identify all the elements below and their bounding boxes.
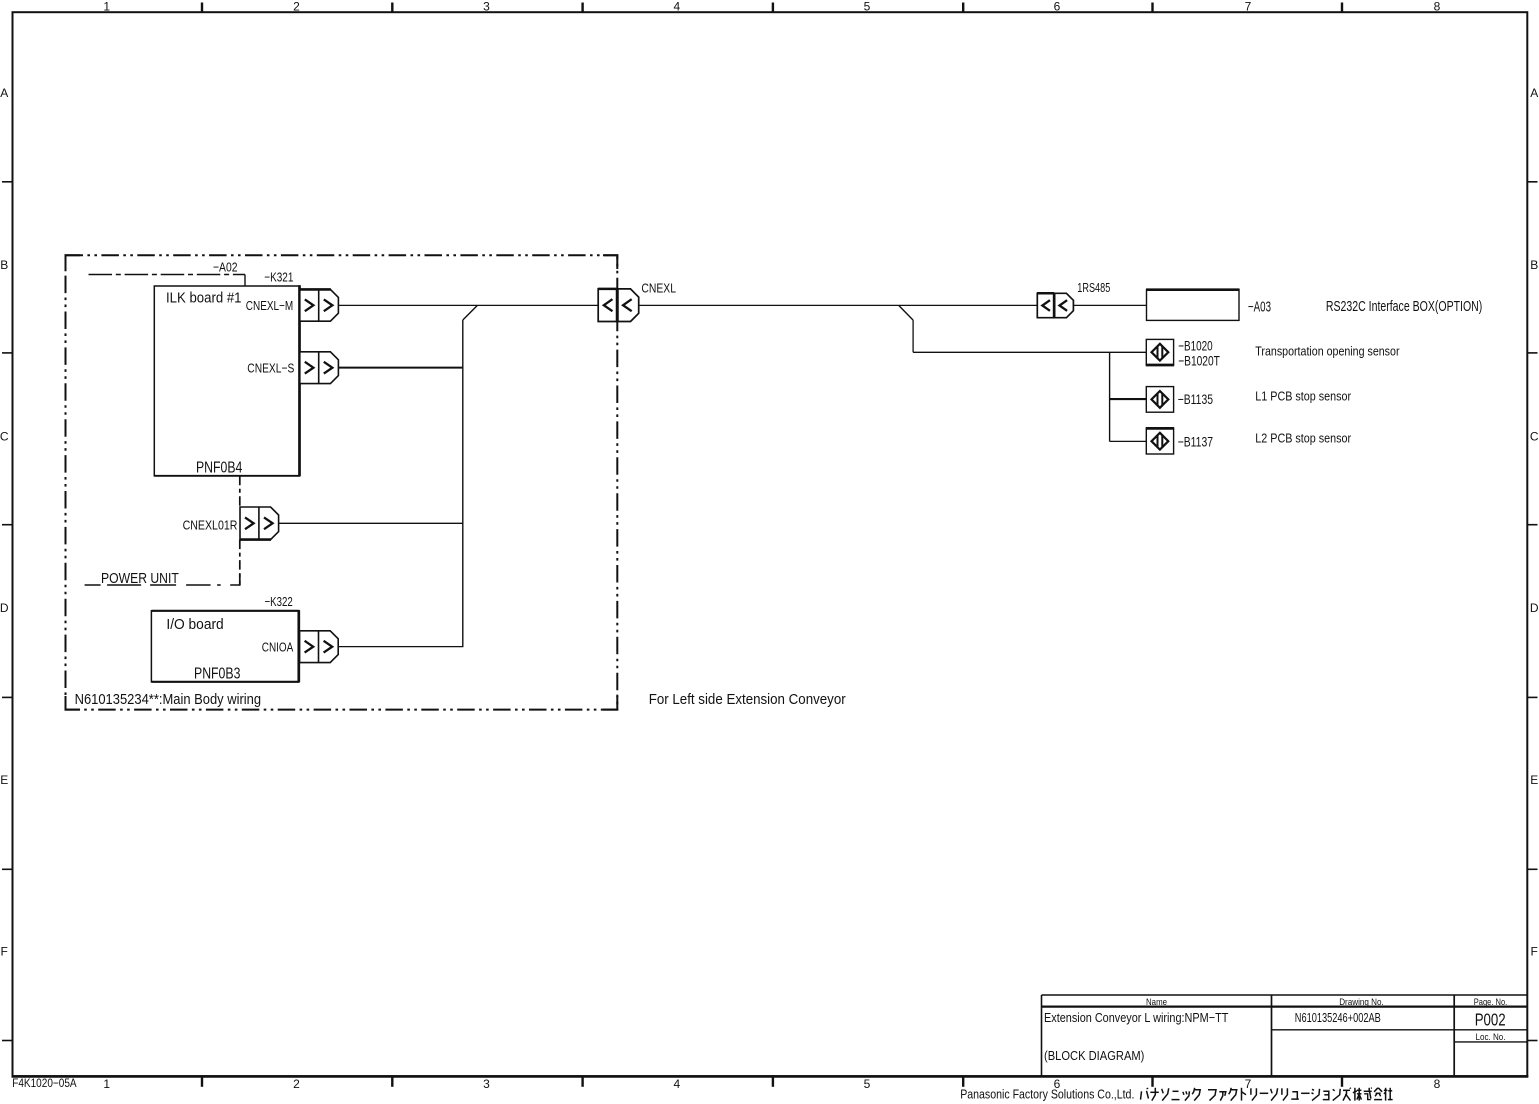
svg-text:Transportation opening sensor: Transportation opening sensor: [1255, 343, 1400, 358]
svg-text:N610135246+002AB: N610135246+002AB: [1295, 1010, 1381, 1025]
board ILK board #1 (PNF0B4): [154, 286, 299, 476]
wire 1RS485 to -A03: [1073, 304, 1146, 306]
svg-text:Panasonic Factory Solutions Co: Panasonic Factory Solutions Co.,Ltd.: [960, 1088, 1134, 1102]
svg-text:P002: P002: [1475, 1009, 1506, 1029]
svg-text:F: F: [1531, 945, 1538, 959]
svg-text:E: E: [0, 773, 8, 787]
wire CNEXL-M to CNEXL: [338, 304, 598, 306]
main body wiring dash-dot boundary box: [66, 255, 618, 709]
svg-text:2: 2: [293, 1077, 300, 1091]
connector 1RS485: [1037, 293, 1073, 317]
svg-text:D: D: [0, 601, 9, 615]
wire -A02 drop to ILK board: [244, 275, 246, 287]
svg-text:8: 8: [1434, 0, 1441, 13]
svg-text:CNEXL−M: CNEXL−M: [246, 298, 293, 313]
svg-text:A: A: [0, 86, 8, 100]
svg-text:5: 5: [864, 0, 871, 13]
wire PNF0B4 to CNEXL01R dashed: [239, 476, 241, 507]
frame column ticks top: [201, 3, 203, 13]
svg-text:F4K1020−05A: F4K1020−05A: [12, 1076, 76, 1090]
frame row ticks left: [2, 181, 13, 183]
svg-text:(BLOCK DIAGRAM): (BLOCK DIAGRAM): [1044, 1048, 1144, 1063]
svg-text:F: F: [1, 945, 8, 959]
wire to L1 PCB stop sensor: [1110, 398, 1147, 400]
svg-text:1: 1: [103, 1077, 110, 1091]
connector CNEXL (boundary): [598, 289, 639, 322]
svg-text:5: 5: [864, 1077, 871, 1091]
svg-text:Name: Name: [1146, 997, 1167, 1008]
wire branch diagonal to sensors: [899, 305, 913, 320]
svg-text:D: D: [1530, 601, 1539, 615]
svg-text:Extension Conveyor L wiring:NP: Extension Conveyor L wiring:NPM−TT: [1044, 1010, 1228, 1025]
svg-text:7: 7: [1245, 0, 1252, 13]
svg-text:CNIOA: CNIOA: [262, 640, 294, 655]
svg-text:Page. No.: Page. No.: [1474, 997, 1508, 1008]
svg-text:−K322: −K322: [265, 594, 293, 609]
svg-text:−K321: −K321: [264, 269, 293, 284]
wire CNEXL to 1RS485: [639, 304, 1038, 306]
svg-text:1RS485: 1RS485: [1077, 280, 1110, 295]
svg-text:B: B: [0, 258, 8, 272]
svg-text:−A03: −A03: [1248, 300, 1271, 316]
wire CNEXL-S to trunk: [338, 367, 463, 369]
svg-text:1: 1: [103, 0, 110, 13]
svg-text:−B1137: −B1137: [1178, 434, 1213, 450]
svg-text:A: A: [1530, 86, 1538, 100]
wire CNIOA to trunk: [338, 646, 463, 648]
wire branch diagonal to trunk: [463, 305, 478, 320]
wire sensor trunk vertical: [1109, 352, 1111, 441]
connector CNIOA: [300, 631, 339, 663]
wire CNEXL01R to trunk: [279, 522, 463, 524]
svg-text:3: 3: [483, 0, 490, 13]
svg-text:4: 4: [673, 0, 680, 13]
wire CNEXL01R to POWER UNIT dashed: [239, 540, 241, 585]
svg-text:B: B: [1530, 258, 1538, 272]
svg-text:L1 PCB stop sensor: L1 PCB stop sensor: [1255, 388, 1351, 403]
company name Japanese (vector strokes): [1141, 1088, 1393, 1101]
wire to L2 PCB stop sensor: [1110, 440, 1147, 442]
board I/O board (PNF0B3): [151, 611, 298, 682]
svg-text:CNEXL01R: CNEXL01R: [183, 517, 238, 532]
svg-text:PNF0B3: PNF0B3: [194, 665, 240, 682]
wire to transportation opening sensor: [913, 351, 1146, 353]
node POWER UNIT dash-dot line: [85, 584, 240, 586]
svg-text:4: 4: [673, 1077, 680, 1091]
svg-text:Loc. No.: Loc. No.: [1476, 1032, 1506, 1043]
node -A02 dash-dot line: [89, 274, 246, 276]
svg-text:C: C: [0, 430, 9, 444]
svg-text:C: C: [1530, 430, 1539, 444]
svg-text:−A02: −A02: [213, 259, 238, 274]
svg-text:PNF0B4: PNF0B4: [196, 460, 242, 477]
svg-text:L2 PCB stop sensor: L2 PCB stop sensor: [1255, 431, 1351, 446]
svg-text:Drawing No.: Drawing No.: [1339, 997, 1384, 1008]
svg-text:−B1020: −B1020: [1178, 337, 1213, 353]
box -A03 RS232C interface: [1147, 290, 1240, 321]
svg-text:−B1135: −B1135: [1178, 391, 1213, 407]
frame row ticks right: [1527, 181, 1537, 183]
svg-text:ILK board #1: ILK board #1: [166, 290, 242, 307]
wire trunk vertical: [462, 320, 464, 647]
svg-text:I/O board: I/O board: [166, 616, 223, 633]
svg-text:N610135234**:Main Body wiring: N610135234**:Main Body wiring: [75, 691, 262, 708]
connector CNEXL-S: [300, 352, 339, 384]
connector CNEXL-M: [300, 289, 339, 321]
svg-text:E: E: [1530, 773, 1538, 787]
sensor -B1137 L2 PCB stop: [1146, 428, 1173, 454]
wire sensor drop vertical: [912, 320, 914, 352]
title block outline: [1041, 995, 1043, 1076]
svg-text:For Left side Extension Convey: For Left side Extension Conveyor: [649, 692, 846, 708]
connector CNEXL01R: [240, 507, 279, 540]
svg-text:6: 6: [1054, 0, 1061, 13]
sensor -B1135 L1 PCB stop: [1146, 387, 1173, 413]
svg-text:8: 8: [1434, 1077, 1441, 1091]
svg-text:−B1020T: −B1020T: [1178, 353, 1220, 369]
frame column ticks bottom: [201, 1076, 203, 1086]
sensor -B1020/-B1020T transportation opening: [1146, 339, 1173, 365]
svg-text:CNEXL: CNEXL: [641, 281, 676, 296]
svg-text:2: 2: [293, 0, 300, 13]
svg-text:CNEXL−S: CNEXL−S: [247, 361, 294, 376]
svg-text:RS232C Interface BOX(OPTION): RS232C Interface BOX(OPTION): [1326, 299, 1482, 315]
svg-text:3: 3: [483, 1077, 490, 1091]
